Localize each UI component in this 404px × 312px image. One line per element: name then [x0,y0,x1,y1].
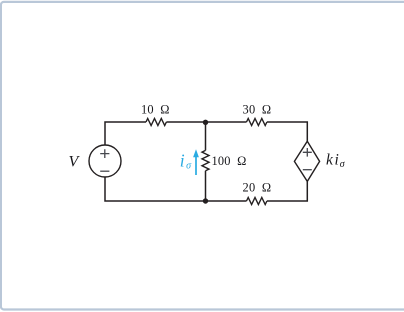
wire: 30-ohm resistor to top-right corner down to dependent source [267,122,307,141]
svg-text:kiσ: kiσ [326,151,346,169]
wire: 10-ohm resistor to top node [166,121,205,123]
svg-text:20 Ω: 20 Ω [243,180,272,194]
wire: middle branch from top node to 100-ohm resistor [205,122,207,150]
wire: 100-ohm resistor to bottom node [205,171,207,201]
resistor R 10 ohm [146,119,166,126]
wire: bottom node to bottom-left corner up to source V [105,177,206,201]
polarity minus of dependent source [303,169,312,171]
current arrow i_sigma (blue) [195,156,197,175]
svg-text:10 Ω: 10 Ω [141,102,170,116]
wire: 20-ohm resistor to bottom node [206,200,247,202]
wire: dependent source to bottom-right corner to 20-ohm resistor [267,181,307,201]
svg-text:iσ: iσ [180,151,192,172]
svg-text:30 Ω: 30 Ω [243,102,272,116]
wire: top-left corner to 10-ohm resistor [105,122,146,145]
resistor R 100 ohm (vertical) [202,150,209,170]
polarity plus of dependent source [303,148,312,157]
voltage source V (circle) [89,145,121,177]
resistor R 30 ohm [247,119,267,126]
polarity minus of source V [100,170,109,172]
wire: top node to 30-ohm resistor [206,121,247,123]
node: bottom junction dot [203,198,208,203]
svg-text:100 Ω: 100 Ω [212,154,247,168]
node: top junction dot [203,120,208,125]
polarity plus of source V [100,149,109,158]
resistor R 20 ohm [247,198,267,205]
svg-text:V: V [69,154,81,171]
dependent source U1 (diamond) [294,141,319,181]
